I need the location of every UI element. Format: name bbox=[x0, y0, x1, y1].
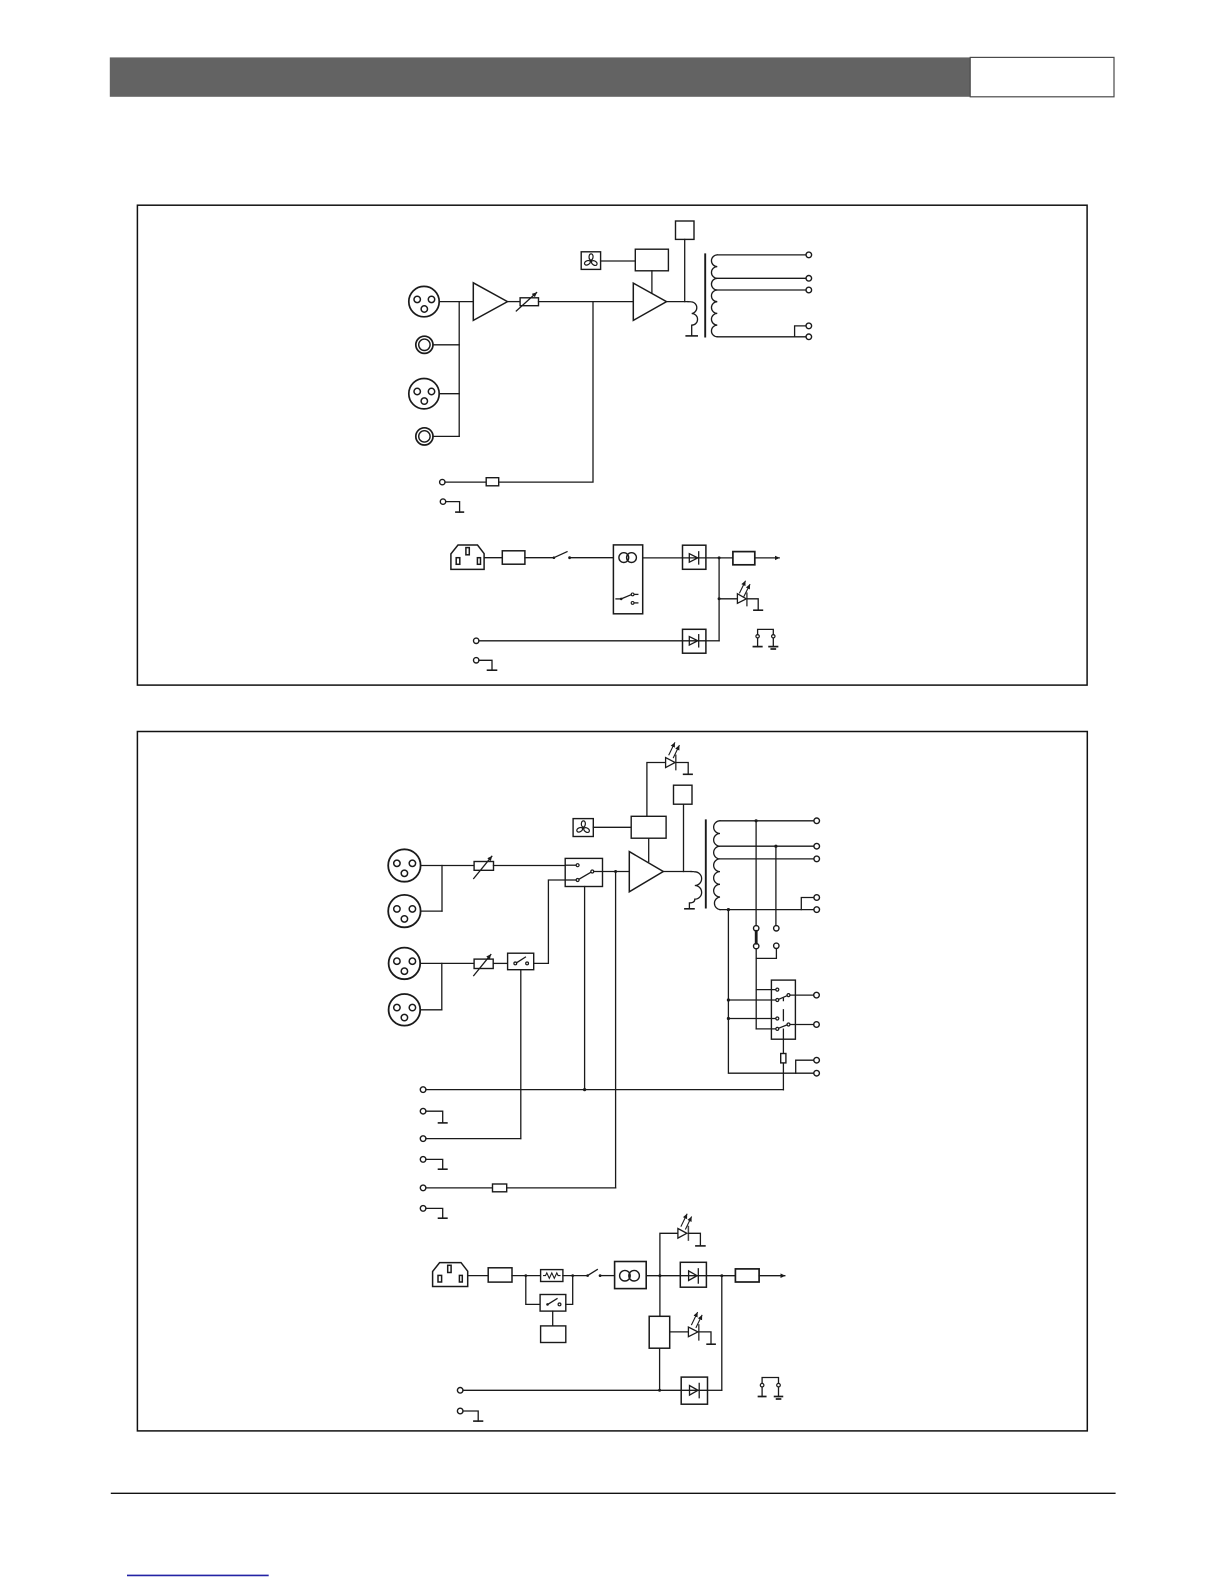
wire SB2 bottom sense bbox=[520, 970, 522, 1139]
jumper contact R bottom bbox=[774, 943, 779, 948]
junction dot LED branch bbox=[718, 597, 721, 600]
footer blue link underline bbox=[127, 1574, 269, 1576]
wire A2 to bus A bbox=[421, 910, 442, 912]
mains inlet P2 bbox=[433, 1263, 468, 1287]
filter/cap block 2 bbox=[735, 1269, 759, 1282]
wire terminal 3 to link switch bbox=[426, 1138, 521, 1140]
aux ground terminal 2 bbox=[457, 1408, 463, 1414]
wire J1 to preamp bbox=[439, 301, 473, 303]
output terminal tap 1 bbox=[814, 818, 820, 824]
wire secondary tap 1 bbox=[720, 820, 814, 822]
wire relay to main line bbox=[566, 1276, 573, 1305]
wire common jog up bbox=[795, 326, 806, 337]
output terminal common B bbox=[814, 907, 820, 913]
jumper link bar (installed) bbox=[755, 931, 758, 943]
jumper contact R top bbox=[774, 926, 779, 931]
wire LED to ground bbox=[747, 599, 758, 610]
wire terminal 5 to block bbox=[426, 1187, 493, 1189]
wire junction to regulator bbox=[659, 1276, 661, 1317]
limiter/protection box bbox=[635, 249, 668, 271]
XLR input connector J1 bbox=[409, 286, 439, 316]
wire jumper bottom tie bbox=[756, 949, 776, 959]
bus A vertical wire bbox=[441, 866, 443, 912]
selector output terminal 2 bbox=[814, 1022, 820, 1028]
DC rail vertical wire bbox=[718, 558, 720, 641]
wire bridge block to main line bbox=[499, 302, 593, 483]
filter/cap block bbox=[733, 552, 755, 565]
wire attenuator to power amp bbox=[539, 301, 634, 303]
ground at power LED bbox=[754, 609, 763, 611]
bridge ground terminal bbox=[440, 499, 445, 504]
wire selector input c bbox=[728, 1018, 775, 1020]
junction dot output bus bbox=[614, 870, 617, 873]
wire jumper to voltage selector bbox=[755, 958, 757, 1029]
sense resistor R1 bbox=[781, 1054, 786, 1063]
XLR input connector B2 bbox=[389, 994, 421, 1026]
mains inlet P1 bbox=[451, 545, 484, 569]
wire SB2 to selector lower input bbox=[534, 880, 576, 963]
transformer T1 secondary winding bbox=[711, 255, 717, 337]
earth ground symbol bbox=[769, 647, 777, 649]
power switch SW2 bbox=[586, 1270, 601, 1278]
dc-offset block SQ2 bbox=[674, 785, 693, 804]
impedance jumper right leg wire bbox=[775, 846, 777, 925]
wire J2 to input bus bbox=[433, 344, 459, 346]
wire rectifier 2 to DC rail bbox=[706, 640, 719, 642]
junction dot tap 2 bbox=[774, 845, 777, 848]
wire SQ1 to output line bbox=[684, 239, 686, 301]
junction dot DC rail 2 bbox=[720, 1274, 723, 1277]
signal terminal 3 bbox=[420, 1136, 426, 1142]
XLR input connector A2 bbox=[388, 895, 420, 927]
wire mains LED to ground bbox=[688, 1233, 700, 1246]
DC rail vertical wire 2 bbox=[721, 1276, 723, 1391]
bridge link block bbox=[486, 478, 499, 486]
wire rail jog up bbox=[796, 1060, 814, 1073]
wire rectifier to filter bbox=[706, 1275, 735, 1277]
wire secondary common tap bbox=[720, 909, 814, 911]
ground link bracket bbox=[756, 629, 775, 646]
rail terminal B bbox=[814, 1070, 820, 1076]
regulator box bbox=[649, 1316, 670, 1348]
wire J4 to input bus bbox=[433, 435, 459, 437]
ground at aux terminal 2 bbox=[463, 1411, 483, 1421]
wire selector input d bbox=[756, 1028, 776, 1030]
header grey title bar bbox=[110, 57, 970, 96]
wire secondary tap 2 bbox=[717, 277, 806, 279]
wire AT2 to selector bbox=[494, 865, 577, 867]
variable attenuator AT3 bbox=[474, 955, 494, 976]
wire common jog up bbox=[801, 898, 814, 910]
transformer T3 primary winding bbox=[689, 872, 701, 909]
wire selector inputs inside box bbox=[565, 865, 576, 880]
wire preamp to attenuator bbox=[508, 301, 521, 303]
transformer T1 core bbox=[704, 254, 706, 336]
ground terminal 4 bbox=[420, 1157, 426, 1163]
wire secondary tap 2 bbox=[720, 845, 814, 847]
wire fuse to power switch bbox=[525, 557, 553, 559]
DC output arrow bbox=[755, 557, 779, 559]
wire inrush to power switch bbox=[563, 1275, 587, 1277]
earth ground symbol 2 bbox=[775, 1397, 783, 1400]
wire selector to sense resistor bbox=[782, 1029, 784, 1090]
XLR input connector B1 bbox=[389, 948, 421, 980]
XLR input connector A1 bbox=[388, 849, 420, 881]
wire secondary tap 3 bbox=[717, 289, 806, 291]
output terminal tap 2 bbox=[806, 276, 812, 282]
wire fan to limiter box bbox=[593, 826, 631, 828]
wire inlet to fuse bbox=[484, 557, 502, 559]
wire secondary tap 4 (common) bbox=[717, 336, 806, 338]
voltage selector box SEL2 bbox=[771, 980, 795, 1039]
power switch SW1 bbox=[553, 552, 571, 559]
output terminal tap 1 bbox=[806, 252, 812, 258]
wire regulator to status LED bbox=[670, 1331, 689, 1333]
wire fuse to inrush limiter bbox=[512, 1275, 541, 1277]
ground at terminal 4 bbox=[426, 1159, 447, 1169]
ground at T1 primary bbox=[686, 335, 697, 337]
jumper contact L top bbox=[754, 926, 759, 931]
input bus vertical wire bbox=[458, 302, 460, 437]
ground at T3 primary bbox=[685, 908, 694, 910]
fan box FAN2 bbox=[573, 819, 593, 837]
DC output arrow 2 bbox=[759, 1275, 785, 1277]
soft start control box bbox=[541, 1326, 566, 1343]
soft start relay box bbox=[540, 1295, 566, 1312]
wire selector common 2 bbox=[790, 1024, 814, 1026]
wire AT3 to link switch bbox=[493, 962, 507, 964]
jumper contact L bottom bbox=[754, 943, 759, 948]
output terminal common A bbox=[806, 323, 812, 329]
rectifier D8 bbox=[681, 1377, 707, 1404]
signal ground symbol 2 bbox=[759, 1396, 766, 1398]
footer rule bbox=[111, 1492, 1116, 1494]
junction dot tap 1 bbox=[755, 819, 758, 822]
ground terminal 2 bbox=[420, 1108, 426, 1114]
wire to mains LED bbox=[660, 1233, 678, 1275]
wire rectifier to filter bbox=[706, 557, 733, 559]
wire selector common 1 bbox=[790, 994, 814, 996]
phone jack input J4 bbox=[416, 428, 433, 445]
clip LED D4 bbox=[666, 743, 680, 770]
inrush resistor box bbox=[541, 1270, 563, 1282]
wire to power LED bbox=[719, 598, 737, 600]
output terminal tap 2 bbox=[814, 843, 820, 849]
rectifier D3 bbox=[683, 629, 706, 653]
junction dot common tap bbox=[727, 908, 730, 911]
input selector box SEL1 bbox=[565, 858, 602, 886]
wire fan to limiter box bbox=[601, 260, 636, 262]
ground link bracket 2 bbox=[760, 1378, 780, 1397]
output terminal tap 3 bbox=[814, 856, 820, 862]
T2 thermal switch bbox=[616, 593, 638, 604]
wire limiter to clip LED bbox=[647, 763, 666, 817]
status LED D6 bbox=[688, 1313, 702, 1340]
diagram frame 2 border bbox=[137, 732, 1087, 1431]
impedance jumper left leg wire bbox=[755, 821, 757, 926]
variable attenuator AT1 bbox=[516, 293, 538, 311]
ground at terminal 2 bbox=[426, 1111, 447, 1123]
transformer T3 secondary winding bbox=[714, 821, 720, 910]
ground at status LED bbox=[707, 1343, 715, 1345]
rectifier D7 bbox=[680, 1262, 706, 1287]
limiter/protection box 2 bbox=[631, 816, 666, 838]
output terminal common B bbox=[806, 334, 812, 340]
wire limiter to power amp bbox=[651, 271, 653, 293]
output bus vertical wire bbox=[615, 872, 617, 1188]
mains transformer box T2 bbox=[613, 545, 642, 614]
junction dot relay return bbox=[571, 1274, 574, 1277]
wire relay coil down bbox=[552, 1311, 554, 1326]
wire selector input b bbox=[728, 999, 775, 1001]
power amp U2 bbox=[633, 283, 666, 320]
wire limiter to power amp 2 bbox=[648, 838, 650, 861]
transformer T3 core bbox=[705, 820, 707, 907]
output terminal common A bbox=[814, 895, 820, 901]
bus B vertical wire bbox=[441, 963, 443, 1009]
junction dot input b bbox=[727, 998, 730, 1001]
wire aux terminal to rectifier 2 bbox=[479, 640, 683, 642]
junction dot inrush bbox=[524, 1274, 527, 1277]
mains transformer box T4 bbox=[615, 1262, 647, 1289]
power LED D2 bbox=[737, 581, 749, 605]
wire inlet to fuse bbox=[468, 1275, 489, 1277]
mains LED D5 bbox=[678, 1214, 692, 1240]
wire block to output bus bbox=[507, 1187, 616, 1189]
T2 winding circles bbox=[619, 553, 637, 563]
wire selector bottom sense bbox=[584, 887, 586, 1090]
wire common tap rail bbox=[728, 910, 813, 1074]
junction dot selector sense bbox=[583, 1088, 586, 1091]
rail terminal A bbox=[814, 1057, 820, 1063]
wire regulator to aux rail bbox=[659, 1348, 661, 1390]
input link switch box SB2 bbox=[508, 953, 534, 970]
wire terminal 1 to sense resistor bbox=[426, 1089, 784, 1091]
signal terminal 5 bbox=[420, 1185, 426, 1191]
header white logo box bbox=[970, 57, 1114, 96]
wire power amp to transformer primary bbox=[667, 301, 689, 303]
ground at terminal 6 bbox=[426, 1208, 447, 1218]
wire status LED to ground bbox=[699, 1332, 711, 1344]
ground terminal 6 bbox=[420, 1206, 426, 1212]
junction dot DC rail bbox=[718, 556, 721, 559]
mains fuse F1 bbox=[502, 551, 525, 564]
wire power amp 2 to transformer primary bbox=[663, 871, 691, 873]
junction dot aux rail bbox=[658, 1389, 661, 1392]
mains fuse F2 bbox=[488, 1268, 512, 1282]
dc-offset block SQ1 bbox=[676, 221, 695, 239]
transformer T1 primary winding bbox=[688, 302, 698, 336]
fan box FAN1 bbox=[581, 252, 600, 270]
wire bridge terminal to block bbox=[445, 481, 486, 483]
preamp U1 bbox=[473, 283, 507, 321]
wire B2 to bus B bbox=[420, 1009, 442, 1011]
wire transformer to rectifier bbox=[646, 1275, 680, 1277]
ground at mains LED bbox=[696, 1245, 705, 1247]
phantom/aux terminal bbox=[474, 638, 479, 643]
phone jack input J2 bbox=[416, 336, 433, 353]
junction dot input c bbox=[727, 1017, 730, 1020]
ground at bridge terminal bbox=[446, 502, 464, 512]
output terminal tap 3 bbox=[806, 287, 812, 293]
wire aux terminal to rectifier bbox=[463, 1389, 681, 1391]
selector output terminal 1 bbox=[814, 992, 820, 998]
diagram frame 1 border bbox=[137, 205, 1087, 685]
variable attenuator AT2 bbox=[474, 856, 494, 878]
signal ground symbol bbox=[753, 646, 761, 648]
wire switch to mains transformer bbox=[602, 1275, 615, 1277]
wire secondary tap 3 bbox=[720, 858, 814, 860]
wire switch to mains transformer bbox=[571, 557, 613, 559]
wire SQ2 to output line bbox=[683, 804, 685, 871]
junction dot mains LED bbox=[658, 1274, 661, 1277]
wire A1 to attenuator bbox=[421, 865, 474, 867]
aux ground terminal bbox=[474, 658, 479, 663]
wire B1 to attenuator bbox=[420, 962, 474, 964]
wire J3 to input bus bbox=[439, 393, 459, 395]
aux terminal bbox=[457, 1388, 463, 1394]
bridge link block 2 bbox=[493, 1184, 507, 1192]
power amp U3 bbox=[629, 852, 663, 892]
wire selector common to power amp bbox=[594, 871, 630, 873]
wire selector input a bbox=[756, 989, 776, 991]
signal terminal 1 bbox=[420, 1087, 426, 1093]
bridge input terminal bbox=[440, 479, 445, 484]
ground at clip LED bbox=[684, 773, 693, 775]
wire transformer to rectifier bbox=[643, 557, 683, 559]
wire secondary tap 1 bbox=[717, 254, 806, 256]
XLR input connector J3 bbox=[409, 379, 439, 409]
wire inrush bypass down bbox=[526, 1276, 540, 1305]
wire rectifier to DC rail 2 bbox=[708, 1389, 722, 1391]
ground at aux terminal bbox=[479, 660, 497, 670]
rectifier D1 bbox=[683, 545, 706, 569]
wire clip LED to ground bbox=[676, 763, 688, 775]
